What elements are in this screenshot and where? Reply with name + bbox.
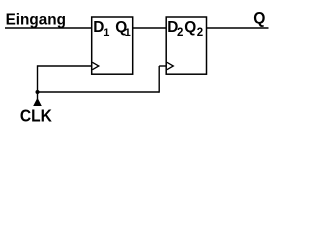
svg-text:1: 1 bbox=[125, 27, 131, 39]
svg-text:2: 2 bbox=[177, 27, 183, 39]
svg-text:Q: Q bbox=[184, 19, 196, 36]
svg-text:2: 2 bbox=[197, 27, 203, 39]
svg-text:Q: Q bbox=[253, 9, 265, 28]
svg-text:Eingang: Eingang bbox=[6, 12, 66, 29]
svg-text:1: 1 bbox=[103, 27, 109, 39]
svg-text:CLK: CLK bbox=[20, 106, 52, 126]
